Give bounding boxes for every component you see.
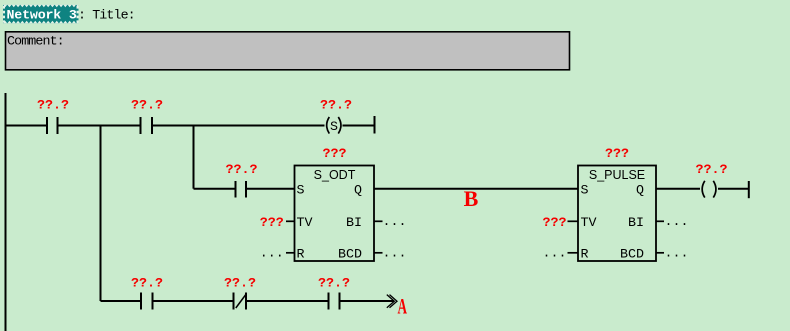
contact K5 NC [234, 293, 247, 310]
svg-text:Q: Q [636, 183, 644, 198]
svg-text:???: ??? [605, 147, 629, 162]
svg-text:???: ??? [543, 216, 567, 231]
end bar rung2 [748, 181, 750, 198]
wire Q2 to coil [656, 188, 700, 190]
R2 stub [568, 252, 578, 254]
network 3 selection box [3, 5, 79, 24]
slash contact K5 [236, 294, 246, 308]
wire timer row seg2 [246, 188, 295, 190]
svg-text:...: ... [543, 246, 567, 261]
BI1 stub [375, 220, 383, 222]
svg-text:??.?: ??.? [131, 99, 163, 114]
svg-text:??.?: ??.? [224, 277, 256, 292]
svg-text:Network 3: Network 3 [7, 9, 77, 24]
wire rung1 seg1 [6, 125, 48, 127]
svg-text:??.?: ??.? [131, 277, 163, 292]
wire bottom rung seg1 [101, 300, 142, 302]
arrow open branch [387, 295, 397, 308]
wire bottom rung seg3 [246, 300, 329, 302]
comment box [6, 32, 570, 70]
svg-text:...: ... [383, 215, 407, 230]
svg-text:R: R [297, 247, 305, 262]
coil S [327, 117, 341, 135]
BCD2 stub [656, 252, 664, 254]
svg-text:???: ??? [323, 147, 347, 162]
svg-text:S: S [330, 120, 338, 135]
TV2 stub [568, 220, 578, 222]
svg-text:??.?: ??.? [318, 277, 350, 292]
svg-text:Comment:: Comment: [7, 35, 64, 50]
svg-text:BCD: BCD [620, 247, 644, 262]
contact K3 [236, 181, 247, 198]
contact K4 [141, 293, 153, 310]
svg-text:BI: BI [628, 216, 644, 231]
svg-text:...: ... [665, 215, 689, 230]
left power rail [5, 93, 7, 331]
R1 stub [286, 252, 294, 254]
svg-text:B: B [464, 186, 479, 211]
wire rung1 seg3 [152, 125, 325, 127]
svg-text:???: ??? [260, 216, 284, 231]
BI2 stub [656, 220, 664, 222]
wire bottom rung seg2 [153, 300, 234, 302]
svg-text:S: S [581, 183, 589, 198]
timer U1 box S_ODT [295, 166, 375, 263]
svg-text:S_PULSE: S_PULSE [589, 168, 645, 182]
branch wire down to timer row [193, 126, 195, 189]
svg-text:TV: TV [297, 216, 313, 231]
timer U2 box S_PULSE [578, 166, 656, 263]
svg-text:: Title:: : Title: [78, 9, 135, 24]
branch wire down to bottom rung [100, 126, 102, 302]
svg-text:??.?: ??.? [37, 99, 69, 114]
svg-text:...: ... [665, 246, 689, 261]
svg-text:BCD: BCD [338, 247, 362, 262]
svg-text:R: R [581, 247, 589, 262]
svg-text:TV: TV [581, 216, 597, 231]
contact K6 [329, 293, 340, 310]
end bar rung1 [374, 116, 376, 134]
wire coil to end [718, 188, 749, 190]
contact K2 [141, 117, 153, 134]
TV1 stub [286, 220, 294, 222]
wire timer row seg1 [194, 188, 236, 190]
wire bottom rung seg4 [340, 300, 395, 302]
svg-text:...: ... [260, 246, 284, 261]
svg-text:??.?: ??.? [226, 163, 258, 178]
svg-text:A: A [398, 294, 408, 319]
svg-text:Q: Q [354, 183, 362, 198]
BCD1 stub [375, 252, 383, 254]
svg-text:??.?: ??.? [696, 163, 728, 178]
svg-text:S: S [297, 183, 305, 198]
wire rung1 seg4 [343, 125, 375, 127]
svg-text:??.?: ??.? [320, 99, 352, 114]
svg-text:...: ... [383, 246, 407, 261]
wire rung1 seg2 [58, 125, 141, 127]
coil output [702, 181, 716, 198]
contact K1 [47, 117, 58, 134]
svg-text:S_ODT: S_ODT [314, 168, 356, 182]
wire Q1 to S_PULSE [375, 188, 579, 190]
svg-text:BI: BI [346, 216, 362, 231]
